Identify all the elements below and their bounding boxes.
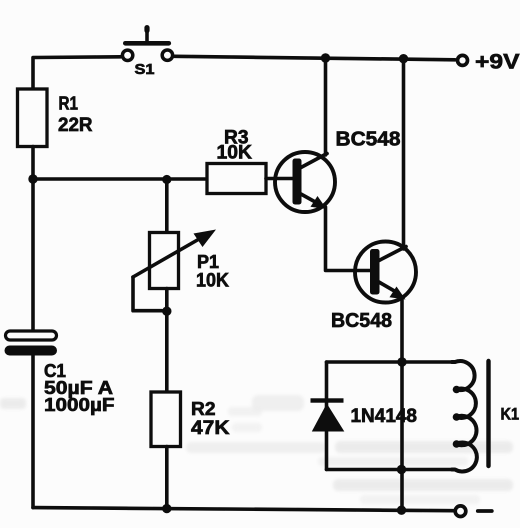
- label P1 10K: [196, 251, 229, 292]
- relay K1 coil: [452, 361, 477, 471]
- junction dot bottom rail R2: [162, 504, 171, 513]
- resistor R3: [207, 164, 266, 194]
- node A junction dot: [28, 174, 37, 183]
- label R3 10K: [217, 128, 253, 164]
- wire relay loop left: [325, 362, 329, 470]
- wire bottom rail: [33, 508, 454, 511]
- svg-text:R1: R1: [59, 93, 79, 114]
- terminal +9V: [458, 55, 468, 65]
- svg-text:BC548: BC548: [336, 129, 401, 151]
- svg-text:10K: 10K: [196, 270, 229, 292]
- wire R2 bottom to bottom rail: [165, 447, 169, 509]
- wire R1 top to S1 left terminal: [33, 57, 121, 90]
- diode 1N4148: [311, 398, 345, 431]
- label minus: [478, 509, 492, 513]
- svg-text:K1: K1: [501, 405, 520, 424]
- label R1 22R: [58, 93, 93, 137]
- junction dot top rail Q2: [399, 54, 408, 63]
- junction dot bottom rail right: [397, 506, 406, 515]
- transistor Q1 BC548: [275, 152, 335, 212]
- svg-text:22R: 22R: [58, 114, 93, 136]
- junction dot top rail Q1: [321, 53, 330, 62]
- svg-text:1N4148: 1N4148: [351, 406, 418, 427]
- junction dot P1 top: [162, 175, 171, 184]
- svg-text:1000µF: 1000µF: [44, 394, 115, 415]
- wire C1 bottom to bottom rail: [31, 356, 35, 508]
- wire Q2 collector up: [402, 59, 406, 250]
- svg-text:+9V: +9V: [475, 50, 520, 74]
- junction dot wiper tie: [162, 307, 171, 316]
- label R2 47K: [191, 398, 230, 439]
- junction dot relay bottom: [397, 465, 406, 474]
- wire Q1 emitter down to Q2 base: [326, 207, 372, 271]
- potentiometer P1: [133, 230, 216, 311]
- resistor R1: [18, 89, 48, 147]
- transistor Q2 BC548: [355, 242, 416, 303]
- svg-text:R2: R2: [191, 398, 216, 419]
- capacitor C1: [5, 331, 58, 356]
- wire P1 bottom to R2: [165, 289, 169, 393]
- wire relay loop top: [327, 360, 456, 364]
- svg-text:10K: 10K: [217, 142, 253, 164]
- wire node A to R3: [33, 177, 207, 181]
- relay K1 frame bar: [486, 361, 490, 466]
- wire R3 to Q1 base: [266, 177, 294, 181]
- wire R1 bottom to C1: [31, 147, 35, 332]
- wire S1 right terminal to +9V node: [175, 56, 456, 60]
- wire P1 top: [165, 180, 169, 233]
- wire relay loop bottom: [327, 468, 453, 472]
- switch S1: [122, 28, 172, 61]
- label C1 50uF 1000uF: [44, 360, 115, 415]
- terminal minus: [455, 506, 466, 517]
- svg-text:BC548: BC548: [331, 310, 392, 332]
- resistor R2: [151, 392, 181, 447]
- svg-text:S1: S1: [135, 61, 155, 78]
- wire Q2 emitter down to bottom rail: [400, 298, 404, 510]
- wire Q1 collector up: [324, 58, 328, 155]
- junction dot relay top: [397, 357, 406, 366]
- svg-text:47K: 47K: [191, 418, 230, 439]
